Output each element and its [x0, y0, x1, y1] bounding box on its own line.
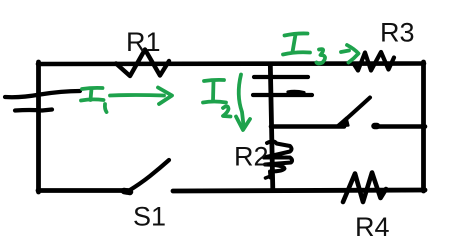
- resistor R1 zigzag: [116, 50, 169, 77]
- current label I3: [283, 33, 325, 63]
- svg-text:R2: R2: [234, 142, 269, 172]
- wire middle horizontal left segment: [271, 124, 344, 129]
- wire left vertical: [36, 62, 41, 192]
- current label I2: [203, 80, 231, 117]
- resistor R2 coil tail tick: [266, 176, 273, 179]
- svg-text:R1: R1: [126, 27, 161, 57]
- svg-text:S1: S1: [133, 202, 166, 232]
- battery B2 plate 2: [253, 93, 312, 97]
- switch S1 pivot blob: [124, 191, 130, 192]
- wire middle horizontal right segment: [375, 124, 425, 129]
- switch S2 arrowhead: [336, 118, 349, 128]
- svg-text:R3: R3: [380, 18, 415, 48]
- switch S2 blade: [345, 98, 371, 121]
- resistor R3 zigzag: [355, 52, 395, 71]
- battery B2 tick: [288, 91, 304, 92]
- svg-text:R4: R4: [355, 212, 390, 242]
- current label I1: [81, 88, 107, 112]
- current arrow I2: [236, 75, 250, 131]
- current arrow I3: [341, 45, 359, 63]
- battery B1 long plate: [5, 91, 80, 97]
- wire top: [38, 61, 424, 66]
- switch S1 blade: [126, 160, 169, 193]
- current arrow I1: [110, 88, 172, 105]
- resistor R4 zigzag: [343, 173, 386, 203]
- battery B2 plate 1: [254, 75, 308, 79]
- battery B1 short plate: [15, 110, 52, 111]
- resistor R2 coil: [264, 141, 292, 177]
- wire right vertical: [421, 62, 426, 191]
- wire middle vertical: [270, 64, 273, 190]
- wire bottom left: [38, 188, 128, 193]
- node pivot dot right segment: [375, 123, 378, 130]
- wire bottom right: [173, 190, 425, 191]
